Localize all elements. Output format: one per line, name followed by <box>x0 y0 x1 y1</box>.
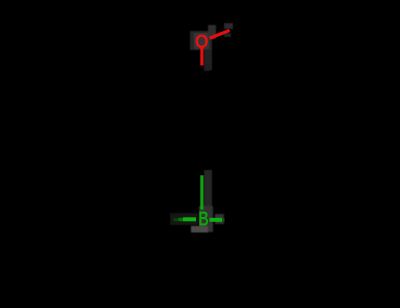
svg-text:B: B <box>198 207 208 230</box>
